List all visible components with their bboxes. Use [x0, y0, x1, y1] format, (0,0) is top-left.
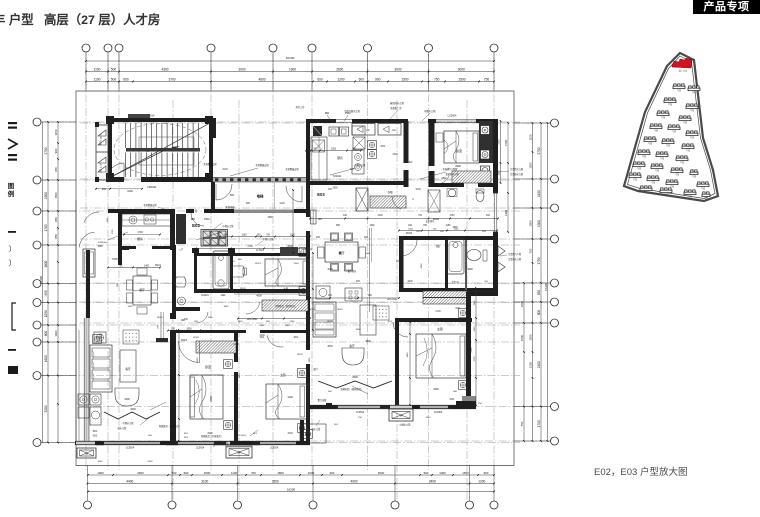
E03 entry shoe cabinets [313, 126, 322, 136]
svg-text:1100: 1100 [290, 321, 295, 323]
svg-text:2600: 2600 [336, 68, 343, 72]
right unit exterior top wall [306, 119, 310, 185]
svg-text:图: 图 [8, 181, 15, 190]
svg-text:MD: MD [325, 111, 329, 115]
svg-text:M021: M021 [155, 265, 161, 267]
key plan building 27 [702, 192, 710, 197]
svg-text:1000: 1000 [439, 471, 446, 475]
svg-text:1200: 1200 [279, 202, 285, 205]
svg-text:1100: 1100 [285, 325, 290, 327]
svg-text:KD2: KD2 [93, 436, 98, 438]
svg-text:GPD RDD: GPD RDD [247, 319, 258, 321]
svg-text:主卧: 主卧 [437, 326, 443, 331]
svg-text:250: 250 [328, 294, 333, 297]
svg-text:3200: 3200 [433, 388, 439, 391]
svg-text:2700: 2700 [537, 147, 541, 154]
left unit mid walls [194, 250, 197, 292]
dining table left unit [133, 276, 151, 305]
svg-text:1000: 1000 [98, 461, 104, 463]
svg-text:W022: W022 [327, 321, 333, 323]
key plan building 4 [686, 104, 698, 109]
right bedroom of left unit [266, 384, 308, 419]
E03 kitchen [311, 137, 327, 180]
svg-text:1300: 1300 [377, 214, 383, 217]
svg-text:3400: 3400 [128, 306, 134, 308]
left bedroom walls [170, 330, 176, 393]
svg-text:卫生间: 卫生间 [451, 280, 459, 284]
key plan building 11 [662, 139, 674, 144]
svg-text:1100: 1100 [231, 471, 238, 475]
svg-text:3600: 3600 [378, 471, 385, 475]
svg-text:650: 650 [537, 290, 541, 296]
svg-text:W021: W021 [406, 232, 413, 235]
svg-text:2700: 2700 [504, 140, 508, 146]
svg-text:900: 900 [364, 236, 369, 239]
svg-text:1300: 1300 [537, 220, 541, 227]
svg-text:LC0814: LC0814 [126, 447, 135, 450]
svg-text:1200: 1200 [331, 149, 337, 151]
svg-text:餐厅: 餐厅 [338, 250, 345, 255]
grid axes [42, 54, 550, 500]
stair treads [126, 123, 199, 177]
svg-text:1500: 1500 [294, 263, 300, 265]
hatched corridor wall [213, 177, 306, 182]
svg-text:2400: 2400 [233, 343, 239, 346]
AC units on deck [352, 124, 375, 136]
svg-text:1000: 1000 [408, 229, 414, 231]
svg-text:2A: 2A [238, 452, 241, 455]
svg-text:LC0914: LC0914 [270, 447, 279, 450]
svg-text:1700: 1700 [137, 231, 143, 234]
svg-text:1800: 1800 [277, 471, 284, 475]
svg-text:4800: 4800 [258, 78, 265, 82]
svg-text:2800: 2800 [210, 396, 213, 402]
svg-text:MD: MD [191, 217, 195, 221]
svg-text:1700: 1700 [44, 224, 48, 231]
svg-text:3400: 3400 [124, 398, 130, 401]
svg-text:1000: 1000 [499, 170, 501, 176]
svg-text:1250: 1250 [529, 361, 533, 368]
svg-text:主卧: 主卧 [283, 287, 289, 291]
key plan building 16 [633, 162, 645, 167]
black banner top-right [693, 0, 760, 14]
svg-text:2A: 2A [400, 415, 403, 418]
svg-text:950: 950 [44, 290, 48, 296]
svg-text:1900: 1900 [239, 373, 241, 379]
svg-text:700: 700 [418, 214, 423, 217]
key plan building 6 [679, 116, 691, 121]
svg-text:1100: 1100 [94, 78, 101, 82]
svg-text:AC: AC [366, 128, 370, 132]
svg-text:MD: MD [318, 219, 322, 221]
svg-text:2400: 2400 [537, 361, 541, 368]
svg-text:厨房: 厨房 [137, 236, 143, 241]
svg-text:600: 600 [123, 78, 129, 82]
svg-text:2700: 2700 [44, 147, 48, 154]
svg-text:1800: 1800 [44, 260, 48, 267]
svg-text:600: 600 [343, 214, 348, 217]
key plan building 20 [647, 176, 659, 181]
svg-text:〕: 〕 [9, 245, 16, 253]
svg-text:1500: 1500 [462, 471, 469, 475]
svg-text:3800: 3800 [327, 345, 333, 348]
svg-text:450: 450 [356, 280, 361, 283]
svg-text:1000: 1000 [308, 471, 315, 475]
left unit SE corner room [300, 420, 304, 443]
svg-text:850: 850 [54, 234, 58, 239]
interior small dims/labels [184, 153, 491, 435]
dotted rug right [373, 306, 389, 320]
entry meter boxes [203, 231, 210, 238]
svg-text:15300: 15300 [39, 276, 43, 284]
window box left [83, 249, 95, 277]
key plan building 8 [668, 125, 680, 130]
svg-text:2800: 2800 [287, 245, 293, 248]
svg-text:1400: 1400 [144, 266, 150, 268]
svg-text:600: 600 [317, 78, 323, 82]
key plan building 15 [676, 156, 688, 161]
svg-text:16100: 16100 [286, 56, 295, 60]
svg-text:厨房: 厨房 [337, 156, 343, 160]
svg-text:〕: 〕 [9, 259, 16, 267]
svg-text:1400: 1400 [407, 352, 409, 358]
svg-text:3200: 3200 [44, 405, 48, 412]
svg-text:LC0814: LC0814 [356, 411, 365, 414]
small bedroom (left unit) [265, 259, 309, 286]
key plan building 22 [690, 170, 698, 175]
fold door V left [104, 412, 160, 419]
key plan building 21 [666, 180, 678, 185]
svg-text:KD1: KD1 [450, 398, 455, 401]
clipped legend marks at left sheet edge [8, 122, 18, 374]
key plan building 13 [638, 150, 650, 155]
svg-text:主卧: 主卧 [280, 372, 286, 377]
svg-text:LC0604: LC0604 [448, 115, 457, 118]
svg-text:1150: 1150 [449, 214, 455, 217]
bathroom left unit [213, 251, 229, 289]
wardrobe hatch left bedroom [196, 341, 236, 353]
svg-text:1150: 1150 [54, 129, 58, 135]
svg-text:15300: 15300 [544, 283, 548, 291]
svg-text:4400: 4400 [126, 480, 133, 484]
svg-text:M021: M021 [157, 317, 163, 319]
svg-text:1700: 1700 [247, 245, 253, 248]
svg-text:750: 750 [484, 78, 490, 82]
svg-text:700: 700 [529, 248, 533, 253]
bottom grid bubbles and dimensions [84, 466, 499, 510]
svg-text:3400: 3400 [429, 480, 436, 484]
svg-text:1500: 1500 [267, 217, 273, 219]
kitchen [118, 211, 122, 250]
svg-text:3600: 3600 [352, 376, 358, 379]
svg-text:900: 900 [54, 148, 58, 153]
svg-text:M02: M02 [442, 177, 447, 180]
svg-text:KD1: KD1 [381, 145, 386, 148]
svg-text:2100: 2100 [435, 310, 441, 313]
washroom fixtures [172, 245, 176, 316]
svg-text:卧室: 卧室 [456, 148, 462, 153]
svg-text:LC0914: LC0914 [238, 435, 246, 437]
small bath mid-right [448, 189, 456, 197]
left grid bubbles and dimensions [33, 118, 76, 447]
svg-text:2900: 2900 [309, 357, 311, 363]
laundry appliances bottom-left [78, 394, 89, 405]
svg-text:例: 例 [8, 189, 15, 198]
right unit interior walls [404, 121, 409, 163]
entry closet X-column [356, 188, 368, 211]
right exterior lower [466, 292, 471, 409]
louver marks [498, 246, 505, 256]
svg-text:3400: 3400 [224, 306, 230, 308]
left exterior + bottom wall [75, 200, 77, 443]
svg-text:800: 800 [396, 260, 401, 263]
svg-text:W022: W022 [181, 340, 188, 342]
svg-text:1650: 1650 [421, 263, 423, 269]
svg-text:1500: 1500 [529, 334, 533, 341]
floor plan [75, 101, 524, 463]
svg-text:M02: M02 [308, 248, 313, 251]
svg-text:1200: 1200 [337, 78, 344, 82]
svg-text:3500: 3500 [272, 480, 279, 484]
svg-text:M021: M021 [309, 309, 315, 311]
svg-text:1150: 1150 [446, 225, 452, 227]
key plan building 14 [656, 152, 668, 157]
duct shafts [96, 125, 108, 180]
svg-text:KD1: KD1 [260, 337, 265, 339]
svg-text:W021: W021 [297, 354, 303, 356]
svg-text:1600: 1600 [54, 330, 58, 337]
svg-text:E02: E02 [192, 223, 200, 228]
svg-text:4600: 4600 [256, 295, 262, 298]
central spine wall [306, 185, 310, 217]
svg-text:2100: 2100 [471, 347, 473, 353]
caption [594, 464, 687, 478]
svg-text:1100: 1100 [242, 235, 248, 237]
svg-text:3400: 3400 [130, 408, 136, 411]
svg-text:1900: 1900 [289, 68, 296, 72]
svg-text:1050: 1050 [44, 310, 48, 317]
svg-text:1000: 1000 [222, 168, 228, 171]
svg-text:800: 800 [44, 331, 48, 337]
svg-text:W1021: W1021 [201, 295, 209, 297]
svg-text:1800: 1800 [407, 280, 413, 283]
svg-text:500: 500 [306, 400, 311, 403]
svg-text:餐厅: 餐厅 [139, 288, 145, 292]
svg-text:900: 900 [375, 78, 381, 82]
svg-text:2600: 2600 [148, 461, 154, 463]
svg-text:650: 650 [54, 167, 58, 172]
highlighted building red [672, 58, 692, 68]
left bedroom bed [190, 375, 223, 419]
svg-text:2900: 2900 [455, 165, 461, 168]
svg-text:W022: W022 [193, 337, 199, 339]
svg-text:900: 900 [330, 471, 335, 475]
svg-text:M02: M02 [408, 161, 413, 164]
key plan building 3 [664, 98, 676, 103]
svg-text:1000: 1000 [197, 357, 199, 363]
svg-text:1800: 1800 [452, 227, 458, 229]
svg-text:E03: E03 [317, 192, 325, 197]
svg-text:卧室: 卧室 [240, 287, 246, 291]
svg-text:1200: 1200 [478, 480, 485, 484]
svg-text:800: 800 [246, 202, 251, 205]
main bath tub + wc [447, 239, 464, 274]
svg-text:250: 250 [316, 236, 321, 239]
svg-text:1300: 1300 [504, 210, 508, 216]
svg-text:750: 750 [520, 421, 524, 426]
svg-text:500: 500 [111, 78, 117, 82]
svg-text:1600: 1600 [332, 188, 338, 190]
svg-text:1500: 1500 [458, 78, 465, 82]
svg-text:1500: 1500 [204, 471, 211, 475]
svg-text:1600: 1600 [44, 355, 48, 362]
svg-text:1150: 1150 [416, 231, 421, 233]
wardrobe hatch lower right [423, 291, 467, 297]
svg-text:1500: 1500 [287, 432, 293, 435]
bottom wall right unit [306, 405, 310, 409]
svg-text:1000: 1000 [415, 188, 421, 191]
svg-text:KD1: KD1 [93, 431, 98, 433]
svg-text:1150: 1150 [537, 190, 541, 197]
svg-text:1500: 1500 [520, 334, 524, 341]
svg-text:1400: 1400 [287, 396, 293, 399]
key plan building 24 [640, 186, 652, 191]
svg-text:4000: 4000 [350, 480, 357, 484]
key plan building 2 [688, 86, 700, 91]
svg-text:LC0914: LC0914 [196, 447, 205, 450]
svg-text:1100: 1100 [221, 295, 227, 297]
key plan building 10 [644, 137, 656, 142]
svg-text:AC: AC [392, 128, 396, 132]
svg-text:1500: 1500 [401, 78, 408, 82]
key plan building 19 [629, 173, 641, 178]
svg-text:客厅: 客厅 [125, 367, 131, 371]
svg-text:暖气: 暖气 [314, 367, 319, 371]
top grid bubbles and dimensions [82, 44, 498, 91]
svg-text:TLMK22: TLMK22 [333, 176, 342, 178]
key plan building 7 [650, 124, 662, 129]
dining table [325, 242, 358, 262]
svg-text:2200: 2200 [520, 300, 524, 307]
key plan building 18 [671, 168, 683, 173]
right unit living room [313, 302, 336, 337]
svg-text:1000: 1000 [474, 326, 476, 332]
svg-text:3000: 3000 [238, 68, 245, 72]
svg-text:500: 500 [184, 471, 189, 475]
svg-text:LC1504: LC1504 [434, 411, 443, 414]
kitchen bottom-left L wall [118, 246, 129, 250]
svg-text:3800: 3800 [365, 340, 371, 343]
svg-text:衣帽: 衣帽 [388, 190, 393, 194]
svg-text:1800: 1800 [467, 268, 473, 271]
svg-text:700: 700 [251, 471, 256, 475]
svg-text:900: 900 [368, 294, 373, 297]
right exterior wall upper [493, 119, 498, 167]
svg-text:LLT314: LLT314 [256, 250, 264, 252]
svg-text:500: 500 [172, 471, 177, 475]
key plan building 26 [684, 190, 696, 195]
svg-text:400: 400 [328, 188, 333, 191]
svg-text:2250: 2250 [235, 409, 237, 415]
balcony fold right [318, 381, 392, 388]
key plan building 1 [673, 84, 685, 89]
svg-text:1800: 1800 [426, 417, 432, 419]
svg-text:3600: 3600 [327, 268, 333, 271]
svg-text:卧室: 卧室 [205, 364, 211, 369]
svg-text:1100: 1100 [94, 68, 101, 72]
hallway closet hatch [262, 300, 308, 311]
svg-text:RTW00x2: RTW00x2 [98, 242, 108, 244]
svg-text:3100: 3100 [201, 480, 208, 484]
corridor south wall [108, 209, 175, 213]
svg-text:客厅: 客厅 [349, 344, 355, 348]
master bedroom E03 [395, 318, 399, 405]
svg-text:16300: 16300 [287, 487, 296, 491]
key plan building 23 [697, 182, 709, 187]
wardrobe hatch top-right [452, 171, 491, 183]
svg-text:FM1021: FM1021 [147, 186, 157, 189]
svg-text:600: 600 [486, 214, 491, 217]
svg-text:1000: 1000 [529, 220, 533, 227]
svg-text:1000: 1000 [97, 471, 104, 475]
stair core walls [108, 118, 213, 122]
svg-text:PD2: PD2 [204, 217, 210, 221]
svg-text:3000: 3000 [394, 68, 401, 72]
svg-text:900: 900 [484, 471, 489, 475]
svg-text:500: 500 [424, 471, 429, 475]
entry hatch strip [370, 196, 406, 208]
svg-text:W021: W021 [255, 263, 261, 265]
svg-text:1500: 1500 [44, 192, 48, 199]
key plan building 25 [660, 188, 672, 193]
svg-text:1000: 1000 [529, 162, 533, 169]
svg-text:GPD RDD: GPD RDD [387, 299, 398, 301]
key plan building 9 [686, 131, 698, 136]
svg-text:200: 200 [102, 188, 107, 191]
svg-text:1300: 1300 [474, 300, 476, 306]
right grid bubbles and dimensions [504, 119, 559, 445]
svg-text:电梯: 电梯 [257, 194, 264, 199]
sheet title [0, 10, 160, 28]
svg-text:1150: 1150 [529, 134, 533, 140]
svg-text:2150: 2150 [499, 139, 501, 145]
svg-text:600: 600 [359, 78, 365, 82]
bay window right [389, 409, 413, 421]
svg-text:1300: 1300 [369, 225, 375, 227]
svg-text:2600: 2600 [137, 471, 144, 475]
svg-text:1700: 1700 [537, 420, 541, 427]
key plan building 5 [657, 111, 669, 116]
svg-text:1700: 1700 [112, 229, 114, 235]
svg-text:M021: M021 [337, 309, 343, 311]
bay windows bottom [77, 448, 96, 458]
svg-text:1500: 1500 [54, 192, 58, 199]
svg-text:1900: 1900 [392, 153, 398, 156]
svg-text:1500: 1500 [208, 317, 214, 319]
svg-text:4300: 4300 [161, 68, 168, 72]
living room left [90, 345, 112, 392]
key plan building 17 [651, 164, 663, 169]
svg-text:3000: 3000 [458, 68, 465, 72]
leader note lines [230, 168, 258, 176]
svg-text:2600: 2600 [207, 432, 213, 435]
svg-text:KD1: KD1 [294, 337, 299, 339]
interior dim chains [310, 218, 498, 220]
stools [316, 286, 330, 299]
svg-text:1000: 1000 [238, 321, 244, 323]
svg-text:950: 950 [54, 217, 58, 222]
key plan building 12 [682, 144, 694, 149]
